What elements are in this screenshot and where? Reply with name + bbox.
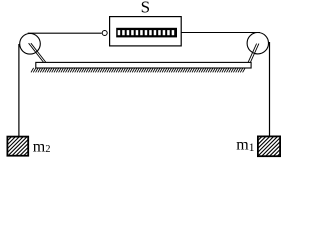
right pulley [247,33,268,54]
left pulley [20,34,41,55]
spring scale box S [110,17,182,46]
wire: left pulley to hook [28,32,102,34]
spring coil inside scale [116,28,177,38]
hook ring on scale left [102,31,107,36]
wire: right pulley down to block m1 [269,42,271,136]
support beam [36,62,251,68]
hatching under beam [31,68,245,73]
wire: scale to right pulley [181,32,260,34]
svg-text:S: S [141,0,150,17]
wire: left pulley down to block m2 [18,44,20,137]
left pulley bracket [29,43,44,62]
right pulley bracket [248,44,257,63]
block m1 [238,136,297,156]
block m2 [0,137,47,156]
